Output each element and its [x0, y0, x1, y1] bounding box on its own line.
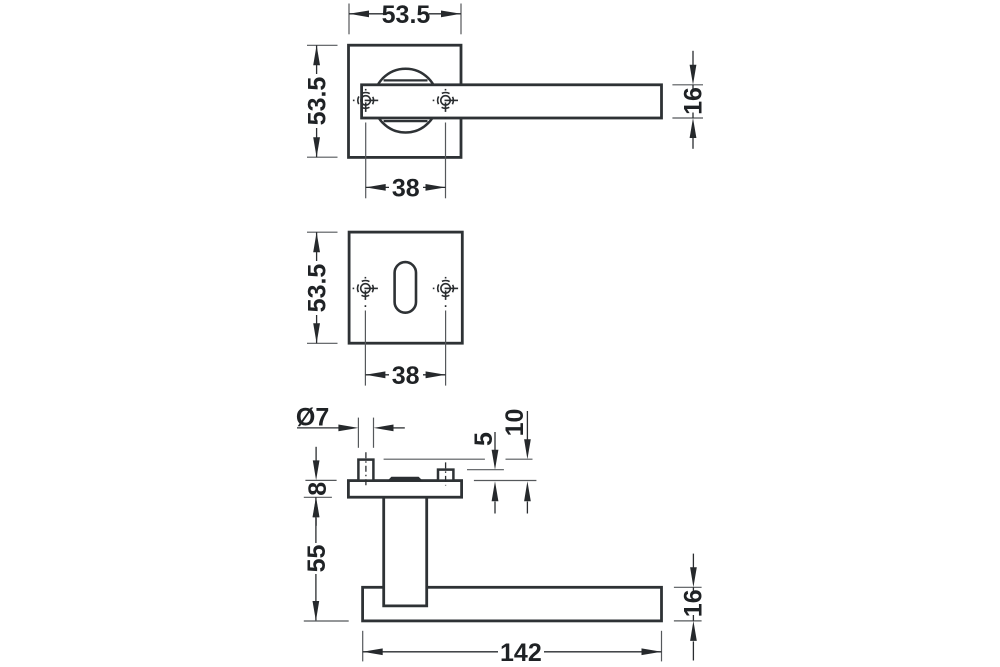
dim 8 witness bottom — [304, 496, 332, 498]
dim 53.5 top witness left — [348, 4, 350, 35]
dim 38 line — [366, 186, 389, 188]
svg-text:53.5: 53.5 — [303, 77, 331, 126]
round rose circle — [374, 69, 438, 133]
lever bar (front view) — [362, 85, 662, 118]
dim 5 top arrow — [494, 432, 496, 450]
dim 10 bottom arrow — [526, 502, 528, 514]
neck bottom chord — [384, 120, 428, 122]
dim diameter7 witness left — [357, 418, 359, 448]
dim 53.5 left witness bottom — [307, 156, 338, 158]
fixing point right — [433, 89, 458, 119]
dim diameter7 left arrow — [297, 427, 340, 429]
screw boss centerline — [445, 462, 447, 485]
dim 53.5 top witness right — [460, 4, 462, 35]
dim 5 witness (boss top) — [467, 469, 504, 471]
dim 5 bottom arrow — [494, 502, 496, 514]
dim 53.5 left witness top — [307, 231, 338, 233]
raised lip on plate — [388, 477, 422, 480]
dim 53.5 left line — [316, 232, 318, 261]
witness line 38 left — [364, 311, 366, 386]
dim 55 line — [315, 497, 317, 543]
dim 53.5 left witness bottom — [307, 342, 338, 344]
keyhole slot — [395, 262, 416, 313]
dim 16 arrows — [692, 554, 694, 568]
svg-text:38: 38 — [392, 362, 420, 390]
dim 142 witness left — [362, 631, 364, 662]
svg-text:142: 142 — [500, 639, 542, 667]
svg-text:16: 16 — [680, 589, 708, 617]
square rosette plate (front view) — [349, 45, 462, 157]
svg-text:16: 16 — [680, 87, 708, 115]
screw boss — [438, 470, 453, 481]
dim 53.5 top line — [349, 13, 384, 15]
rosette plate (side view) — [348, 481, 461, 498]
witness line 38 right — [445, 123, 447, 199]
svg-text:53.5: 53.5 — [382, 1, 431, 29]
dim 16 right witness bottom — [674, 620, 702, 622]
svg-text:8: 8 — [304, 482, 332, 496]
pin centerline — [365, 452, 367, 485]
fixing point left — [353, 89, 378, 119]
witness plate top right — [474, 480, 537, 482]
square escutcheon plate (front view) — [349, 232, 462, 343]
svg-text:53.5: 53.5 — [303, 264, 331, 313]
neck top chord — [384, 79, 428, 81]
dim diameter7 right arrow — [392, 427, 405, 429]
neck stem (side view) — [384, 497, 427, 606]
dim 8 top arrow — [315, 447, 317, 461]
dim 16 right witness top — [674, 586, 702, 588]
dim 8 witness top — [305, 479, 336, 481]
dim diameter7 witness right — [373, 418, 375, 448]
fixing point right — [433, 277, 458, 307]
dim 16 arrows — [692, 51, 694, 65]
dim 53.5 left line — [316, 45, 318, 74]
dim 16 right witness top — [672, 84, 703, 86]
dim 10 top arrow — [526, 411, 528, 440]
lever bar (side view) — [363, 587, 662, 621]
svg-text:5: 5 — [470, 432, 498, 446]
dim 53.5 left witness top — [307, 44, 338, 46]
svg-text:38: 38 — [392, 174, 420, 202]
dim 10 witness (pin top) — [384, 458, 485, 460]
dim 142 witness right — [661, 631, 663, 662]
dim 55 witness bottom — [304, 620, 349, 622]
dim 16 right witness bottom — [672, 117, 703, 119]
fixing point left — [353, 277, 378, 307]
witness line 38 right — [445, 311, 447, 386]
witness line 38 left — [365, 123, 367, 199]
spindle pin — [358, 460, 373, 481]
dim 142 line — [363, 651, 498, 653]
svg-text:55: 55 — [303, 545, 331, 573]
svg-text:10: 10 — [501, 409, 529, 437]
dim 38 line — [365, 374, 389, 376]
dim 8 bottom arrow — [315, 518, 317, 526]
